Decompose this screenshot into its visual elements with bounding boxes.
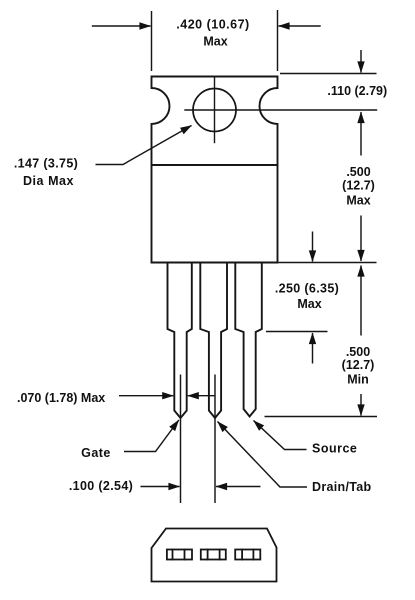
body bottom extension line	[279, 262, 377, 264]
dim .250 top arrow	[312, 232, 314, 262]
svg-text:.147 (3.75): .147 (3.75)	[14, 157, 78, 171]
lead tip extension line	[265, 416, 378, 418]
top edge extension line (for .110)	[280, 73, 377, 75]
svg-text:.250 (6.35): .250 (6.35)	[275, 282, 339, 296]
source leader line	[254, 421, 307, 450]
dim .420 left arrow	[92, 25, 151, 27]
dim .500 max lower arrow	[360, 216, 362, 262]
svg-text:.070 (1.78) Max: .070 (1.78) Max	[17, 391, 105, 405]
svg-text:Gate: Gate	[81, 446, 111, 460]
dim .420 left extension line	[151, 11, 153, 71]
dim .500 max upper arrow	[360, 112, 362, 156]
svg-text:(12.7): (12.7)	[342, 179, 375, 193]
dim .250 bottom arrow	[312, 333, 314, 364]
mounting hole	[193, 89, 236, 132]
svg-text:Drain/Tab: Drain/Tab	[312, 480, 371, 494]
bottom view lead 2 section	[201, 550, 226, 560]
dim .110 top arrow	[360, 50, 362, 73]
svg-text:.420 (10.67): .420 (10.67)	[176, 18, 249, 32]
package tab outline with side notches	[152, 77, 278, 263]
svg-text:Max: Max	[203, 35, 227, 49]
lead 2 drain outline	[200, 263, 227, 419]
dim .500 min upper arrow	[360, 266, 362, 336]
dim .100 right extension line	[214, 375, 216, 504]
svg-text:Min: Min	[347, 373, 369, 387]
dim .070 right arrow	[188, 395, 215, 397]
lead 1 gate outline	[168, 263, 192, 419]
svg-text:.110 (2.79): .110 (2.79)	[327, 84, 387, 98]
svg-text:.500: .500	[346, 165, 370, 179]
lead shoulder extension line	[266, 331, 328, 333]
bottom end view outline	[152, 529, 277, 582]
lead 3 source outline	[235, 263, 261, 417]
gate leader line	[124, 420, 179, 452]
svg-text:(12.7): (12.7)	[342, 358, 375, 372]
bottom view lead 1 section	[167, 550, 192, 560]
dia leader line	[96, 126, 192, 165]
dim .100 left arrow	[141, 486, 180, 488]
dim .100 right arrow	[216, 486, 261, 488]
drain leader line	[218, 422, 308, 488]
svg-text:.500: .500	[346, 345, 370, 359]
dim .420 right extension line	[277, 10, 279, 71]
hole horizontal centerline / .110 extension	[185, 109, 377, 111]
dim .070 left arrow	[119, 395, 173, 397]
dim .420 right arrow	[279, 25, 321, 27]
svg-text:.100 (2.54): .100 (2.54)	[69, 479, 133, 493]
svg-text:Source: Source	[312, 442, 357, 456]
svg-text:Dia Max: Dia Max	[23, 174, 74, 188]
svg-text:Max: Max	[346, 194, 370, 208]
hole vertical centerline	[214, 78, 216, 143]
dim .100 left extension line	[180, 375, 182, 504]
bottom view lead 3 section	[235, 550, 260, 560]
dim .500 min lower arrow	[360, 394, 362, 416]
svg-text:Max: Max	[297, 297, 321, 311]
tab/body separator line	[152, 164, 278, 166]
